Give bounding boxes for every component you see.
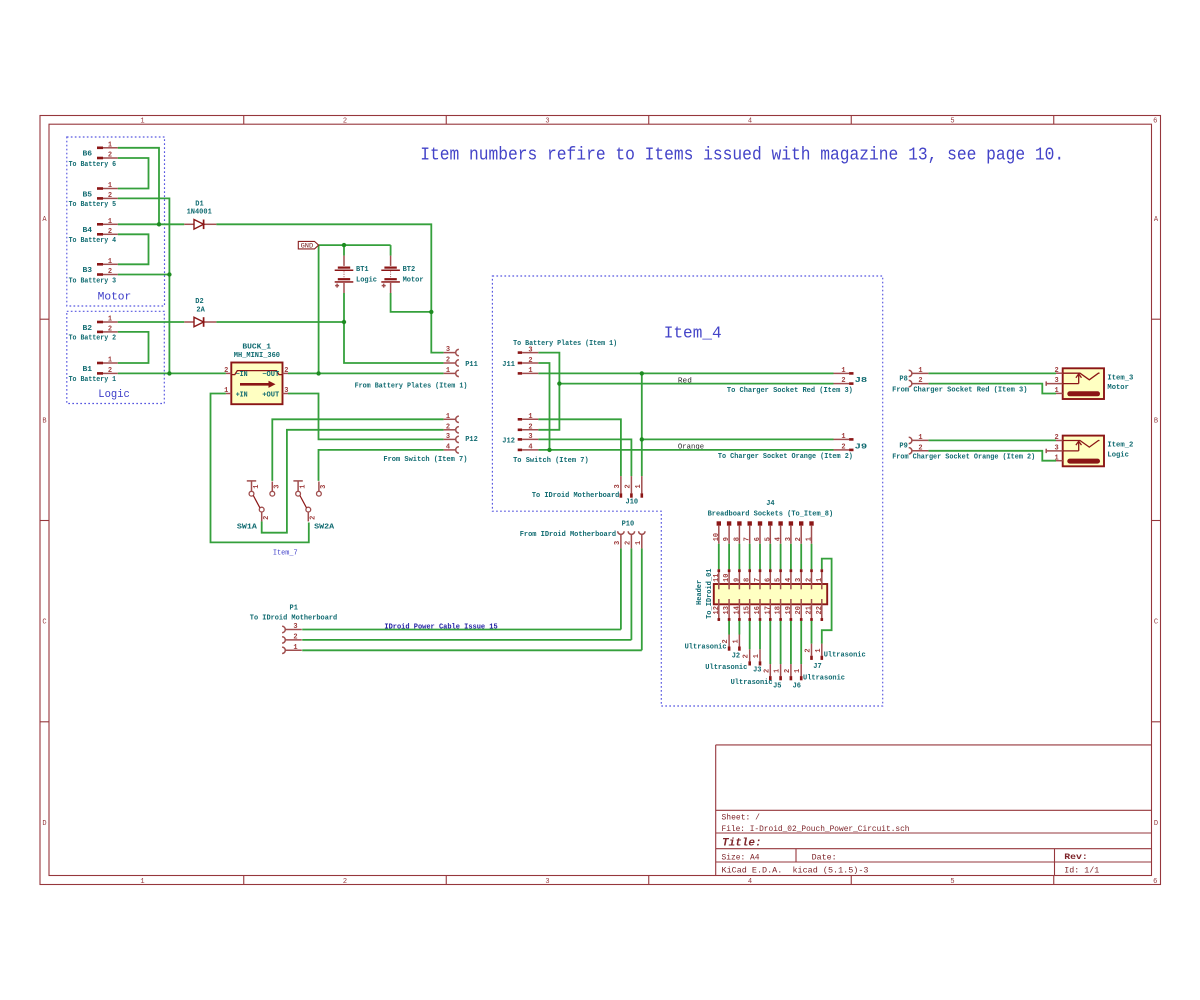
svg-text:Item_7: Item_7 bbox=[273, 550, 298, 558]
svg-text:Motor: Motor bbox=[1107, 384, 1129, 392]
svg-text:Motor: Motor bbox=[98, 292, 132, 304]
svg-text:1: 1 bbox=[108, 141, 112, 149]
svg-text:1: 1 bbox=[528, 367, 532, 375]
svg-text:Item_4: Item_4 bbox=[664, 325, 722, 344]
svg-text:To_IDroid_01: To_IDroid_01 bbox=[706, 569, 714, 619]
svg-text:D: D bbox=[1154, 820, 1158, 828]
svg-text:Size: A4: Size: A4 bbox=[722, 853, 760, 862]
svg-text:−OUT: −OUT bbox=[262, 371, 279, 379]
svg-text:2: 2 bbox=[108, 325, 112, 333]
svg-text:B: B bbox=[42, 417, 46, 425]
svg-text:Ultrasonic: Ultrasonic bbox=[685, 643, 727, 651]
svg-text:10: 10 bbox=[723, 574, 731, 582]
svg-text:B2: B2 bbox=[83, 325, 93, 333]
svg-text:4: 4 bbox=[446, 444, 450, 452]
svg-text:J3: J3 bbox=[753, 666, 761, 674]
svg-text:2A: 2A bbox=[196, 306, 205, 314]
svg-text:10: 10 bbox=[713, 533, 721, 541]
svg-text:13: 13 bbox=[723, 606, 731, 614]
svg-text:J4: J4 bbox=[766, 500, 774, 508]
svg-text:P10: P10 bbox=[622, 520, 635, 528]
svg-text:16: 16 bbox=[754, 606, 762, 614]
svg-text:3: 3 bbox=[785, 537, 793, 541]
svg-text:To Charger Socket Red (Item 3): To Charger Socket Red (Item 3) bbox=[727, 387, 853, 395]
svg-text:+OUT: +OUT bbox=[262, 392, 279, 400]
svg-text:+IN: +IN bbox=[236, 392, 248, 400]
svg-text:8: 8 bbox=[744, 578, 752, 582]
svg-text:1: 1 bbox=[293, 644, 297, 652]
svg-text:1: 1 bbox=[108, 316, 112, 324]
svg-text:J9: J9 bbox=[855, 443, 868, 451]
svg-text:2: 2 bbox=[795, 537, 803, 541]
svg-text:D1: D1 bbox=[195, 200, 203, 208]
svg-text:2: 2 bbox=[108, 367, 112, 375]
svg-text:2: 2 bbox=[1054, 434, 1058, 442]
svg-text:File: I-Droid_02_Pouch_Power_C: File: I-Droid_02_Pouch_Power_Circuit.sch bbox=[722, 825, 910, 834]
svg-text:3: 3 bbox=[284, 387, 288, 395]
svg-text:Ultrasonic: Ultrasonic bbox=[731, 679, 773, 687]
svg-text:J12: J12 bbox=[502, 437, 515, 445]
svg-text:D: D bbox=[42, 820, 46, 828]
svg-text:To Battery 6: To Battery 6 bbox=[69, 161, 117, 169]
svg-text:1: 1 bbox=[108, 182, 112, 190]
svg-text:2: 2 bbox=[108, 228, 112, 236]
svg-text:To IDroid Motherboard: To IDroid Motherboard bbox=[532, 492, 619, 500]
svg-text:SW1A: SW1A bbox=[237, 523, 258, 531]
svg-text:P11: P11 bbox=[465, 361, 478, 369]
svg-text:P9: P9 bbox=[899, 443, 907, 451]
svg-text:Sheet: /: Sheet: / bbox=[722, 814, 761, 823]
svg-text:2: 2 bbox=[343, 878, 347, 886]
svg-text:3: 3 bbox=[614, 484, 622, 488]
svg-text:21: 21 bbox=[806, 606, 814, 614]
svg-text:2: 2 bbox=[343, 118, 347, 126]
svg-text:2: 2 bbox=[763, 669, 771, 673]
svg-text:To Battery 5: To Battery 5 bbox=[69, 201, 117, 209]
svg-text:3: 3 bbox=[528, 433, 532, 441]
svg-text:2: 2 bbox=[918, 444, 922, 452]
svg-text:Breadboard Sockets (To_Item_8): Breadboard Sockets (To_Item_8) bbox=[708, 510, 834, 518]
svg-text:B6: B6 bbox=[83, 151, 93, 159]
svg-text:1: 1 bbox=[794, 669, 802, 673]
svg-text:J6: J6 bbox=[793, 682, 801, 690]
svg-text:P8: P8 bbox=[899, 376, 907, 384]
svg-text:GND: GND bbox=[301, 243, 314, 250]
svg-text:1: 1 bbox=[732, 639, 740, 643]
svg-text:1: 1 bbox=[528, 413, 532, 421]
svg-text:B5: B5 bbox=[83, 191, 93, 199]
svg-text:1: 1 bbox=[753, 654, 761, 658]
svg-text:J8: J8 bbox=[855, 377, 868, 385]
svg-text:3: 3 bbox=[545, 118, 549, 126]
svg-text:1: 1 bbox=[1054, 387, 1058, 395]
svg-text:KiCad E.D.A. kicad (5.1.5)-3: KiCad E.D.A. kicad (5.1.5)-3 bbox=[722, 867, 869, 876]
svg-text:2: 2 bbox=[108, 192, 112, 200]
svg-text:P12: P12 bbox=[465, 436, 478, 444]
svg-text:B4: B4 bbox=[83, 227, 93, 235]
svg-text:2: 2 bbox=[263, 516, 271, 520]
svg-text:2: 2 bbox=[841, 377, 845, 385]
svg-text:D2: D2 bbox=[195, 298, 203, 306]
svg-text:4: 4 bbox=[528, 444, 532, 452]
svg-text:From Charger Socket Orange (It: From Charger Socket Orange (Item 2) bbox=[892, 454, 1035, 462]
svg-text:Item numbers refire to Items i: Item numbers refire to Items issued with… bbox=[420, 145, 1064, 165]
svg-text:−IN: −IN bbox=[236, 371, 248, 379]
svg-text:2: 2 bbox=[224, 367, 228, 375]
svg-text:5: 5 bbox=[764, 537, 772, 541]
svg-text:6: 6 bbox=[764, 578, 772, 582]
svg-text:To Battery 4: To Battery 4 bbox=[69, 237, 117, 245]
svg-text:IDroid Power Cable Issue 15: IDroid Power Cable Issue 15 bbox=[384, 624, 497, 632]
svg-text:15: 15 bbox=[744, 606, 752, 614]
svg-text:Item_3: Item_3 bbox=[1107, 374, 1133, 382]
svg-text:4: 4 bbox=[748, 118, 752, 126]
svg-text:3: 3 bbox=[1054, 445, 1058, 453]
svg-text:8: 8 bbox=[733, 537, 741, 541]
svg-text:Logic: Logic bbox=[356, 277, 377, 285]
svg-text:J10: J10 bbox=[626, 498, 639, 506]
svg-text:1: 1 bbox=[446, 367, 450, 375]
svg-text:1: 1 bbox=[300, 485, 308, 489]
svg-text:2: 2 bbox=[310, 516, 318, 520]
svg-text:P1: P1 bbox=[290, 605, 298, 613]
svg-text:7: 7 bbox=[754, 578, 762, 582]
svg-text:19: 19 bbox=[785, 606, 793, 614]
svg-text:1: 1 bbox=[816, 578, 824, 582]
svg-text:BT2: BT2 bbox=[403, 266, 416, 274]
svg-text:To IDroid Motherboard: To IDroid Motherboard bbox=[250, 615, 337, 623]
svg-text:Id: 1/1: Id: 1/1 bbox=[1064, 867, 1099, 876]
svg-text:3: 3 bbox=[293, 623, 297, 631]
svg-text:1: 1 bbox=[815, 648, 823, 652]
svg-text:20: 20 bbox=[795, 606, 803, 614]
svg-text:4: 4 bbox=[785, 578, 793, 582]
svg-text:3: 3 bbox=[446, 346, 450, 354]
svg-text:To Battery 3: To Battery 3 bbox=[69, 277, 117, 285]
svg-text:1: 1 bbox=[635, 541, 643, 545]
svg-text:To Battery Plates (Item 1): To Battery Plates (Item 1) bbox=[513, 340, 617, 348]
svg-text:1: 1 bbox=[635, 484, 643, 488]
svg-text:Header: Header bbox=[696, 580, 704, 605]
svg-text:2: 2 bbox=[841, 444, 845, 452]
svg-text:1: 1 bbox=[841, 367, 845, 375]
svg-text:B: B bbox=[1154, 417, 1158, 425]
svg-text:2: 2 bbox=[528, 424, 532, 432]
svg-text:J11: J11 bbox=[502, 361, 515, 369]
svg-text:14: 14 bbox=[733, 606, 741, 614]
svg-text:2: 2 bbox=[284, 367, 288, 375]
svg-text:3: 3 bbox=[1054, 377, 1058, 385]
svg-text:1: 1 bbox=[140, 878, 144, 886]
svg-text:1: 1 bbox=[224, 387, 228, 395]
svg-text:BUCK_1: BUCK_1 bbox=[242, 344, 271, 352]
svg-text:To Charger Socket Orange (Item: To Charger Socket Orange (Item 2) bbox=[718, 453, 853, 461]
svg-text:6: 6 bbox=[754, 537, 762, 541]
svg-text:2: 2 bbox=[293, 634, 297, 642]
svg-text:2: 2 bbox=[918, 377, 922, 385]
svg-text:1: 1 bbox=[918, 367, 922, 375]
svg-text:To Switch (Item 7): To Switch (Item 7) bbox=[513, 457, 589, 465]
svg-text:From Charger Socket Red (Item: From Charger Socket Red (Item 3) bbox=[892, 386, 1027, 394]
svg-text:B1: B1 bbox=[83, 366, 93, 374]
svg-text:Title:: Title: bbox=[722, 838, 762, 850]
svg-text:2: 2 bbox=[108, 152, 112, 160]
svg-text:2: 2 bbox=[806, 578, 814, 582]
svg-text:7: 7 bbox=[744, 537, 752, 541]
svg-text:17: 17 bbox=[764, 606, 772, 614]
svg-text:22: 22 bbox=[816, 606, 824, 614]
svg-text:3: 3 bbox=[320, 485, 328, 489]
svg-text:1: 1 bbox=[446, 413, 450, 421]
svg-text:Date:: Date: bbox=[812, 853, 837, 862]
svg-text:To Battery 2: To Battery 2 bbox=[69, 335, 117, 343]
svg-text:SW2A: SW2A bbox=[314, 523, 335, 531]
svg-text:C: C bbox=[1154, 619, 1158, 627]
svg-text:3: 3 bbox=[795, 578, 803, 582]
svg-text:1: 1 bbox=[774, 669, 782, 673]
svg-text:2: 2 bbox=[624, 484, 632, 488]
svg-text:Logic: Logic bbox=[98, 389, 130, 401]
svg-text:9: 9 bbox=[723, 537, 731, 541]
svg-text:2: 2 bbox=[784, 669, 792, 673]
svg-text:3: 3 bbox=[545, 878, 549, 886]
svg-text:To Battery 1: To Battery 1 bbox=[69, 376, 117, 384]
svg-text:4: 4 bbox=[775, 537, 783, 541]
svg-text:C: C bbox=[42, 619, 46, 627]
svg-text:6: 6 bbox=[1153, 878, 1157, 886]
svg-text:2: 2 bbox=[528, 357, 532, 365]
svg-text:From Battery Plates (Item 1): From Battery Plates (Item 1) bbox=[355, 382, 468, 390]
svg-text:4: 4 bbox=[748, 878, 752, 886]
svg-text:2: 2 bbox=[108, 268, 112, 276]
svg-text:J7: J7 bbox=[813, 663, 821, 671]
svg-text:5: 5 bbox=[775, 578, 783, 582]
svg-text:2: 2 bbox=[1054, 367, 1058, 375]
svg-text:Item_2: Item_2 bbox=[1107, 442, 1133, 450]
svg-text:J5: J5 bbox=[773, 682, 781, 690]
svg-text:From IDroid Motherboard: From IDroid Motherboard bbox=[520, 531, 616, 539]
svg-text:2: 2 bbox=[743, 654, 751, 658]
svg-text:1: 1 bbox=[108, 218, 112, 226]
svg-text:1: 1 bbox=[1054, 454, 1058, 462]
svg-text:1: 1 bbox=[140, 118, 144, 126]
svg-text:2: 2 bbox=[805, 648, 813, 652]
svg-text:3: 3 bbox=[446, 433, 450, 441]
svg-text:Ultrasonic: Ultrasonic bbox=[705, 664, 747, 672]
svg-text:3: 3 bbox=[614, 541, 622, 545]
svg-text:MH_MINI_360: MH_MINI_360 bbox=[234, 352, 280, 360]
svg-text:Ultrasonic: Ultrasonic bbox=[803, 675, 845, 683]
svg-text:B3: B3 bbox=[83, 267, 93, 275]
svg-text:1N4001: 1N4001 bbox=[187, 209, 212, 217]
svg-text:J2: J2 bbox=[732, 653, 740, 661]
svg-text:From Switch (Item 7): From Switch (Item 7) bbox=[383, 456, 467, 464]
svg-text:1: 1 bbox=[108, 258, 112, 266]
svg-text:2: 2 bbox=[446, 357, 450, 365]
svg-text:9: 9 bbox=[733, 578, 741, 582]
svg-text:Ultrasonic: Ultrasonic bbox=[824, 652, 866, 660]
svg-text:1: 1 bbox=[253, 485, 261, 489]
svg-text:Rev:: Rev: bbox=[1064, 853, 1088, 862]
svg-text:6: 6 bbox=[1153, 118, 1157, 126]
svg-text:18: 18 bbox=[775, 606, 783, 614]
svg-text:1: 1 bbox=[841, 433, 845, 441]
svg-text:Logic: Logic bbox=[1107, 452, 1129, 460]
svg-text:2: 2 bbox=[446, 423, 450, 431]
svg-text:2: 2 bbox=[624, 541, 632, 545]
svg-text:3: 3 bbox=[274, 485, 282, 489]
svg-text:5: 5 bbox=[950, 118, 954, 126]
svg-text:1: 1 bbox=[918, 434, 922, 442]
svg-text:5: 5 bbox=[950, 878, 954, 886]
svg-text:BT1: BT1 bbox=[356, 266, 369, 274]
svg-text:1: 1 bbox=[108, 357, 112, 365]
svg-text:1: 1 bbox=[806, 537, 814, 541]
svg-text:Motor: Motor bbox=[403, 277, 424, 285]
